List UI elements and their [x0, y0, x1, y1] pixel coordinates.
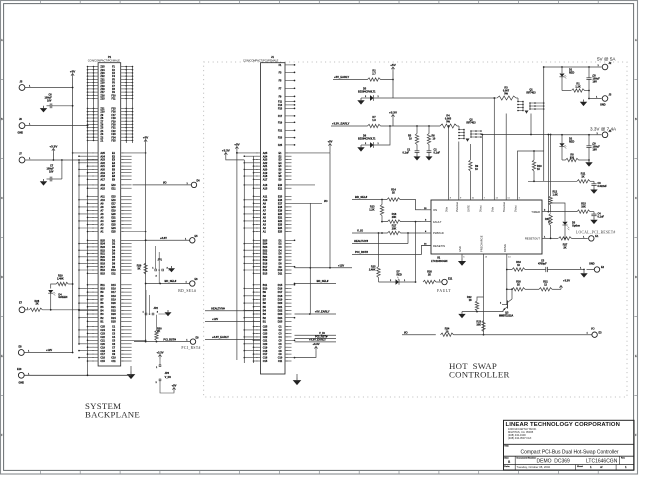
svg-text:V_I/O: V_I/O — [165, 376, 171, 379]
svg-text:E25: E25 — [111, 231, 116, 234]
wire PRECHARGE vertical — [483, 254, 485, 335]
wire R12 top feed — [550, 135, 552, 197]
svg-text:+3.3V: +3.3V — [222, 148, 230, 152]
wire R19 to +5V bus — [68, 283, 72, 285]
svg-text:0.1uF: 0.1uF — [598, 215, 605, 218]
svg-text:D21: D21 — [111, 306, 116, 309]
title block divider 1 — [504, 443, 635, 445]
wire U1 3Vout pin up to 3.3V output — [481, 135, 483, 201]
ground symbol at C7 — [43, 179, 45, 181]
ground symbol at JP2 — [167, 310, 169, 312]
wire R17 to PWRGD pin — [401, 232, 422, 234]
svg-text:A: A — [635, 39, 637, 42]
svg-text:ON: ON — [433, 208, 437, 212]
svg-text:2K: 2K — [563, 247, 566, 250]
ground symbol below C3 — [593, 185, 595, 187]
title block outer box — [504, 420, 635, 470]
svg-text:CONTROLLER: CONTROLLER — [449, 370, 510, 380]
svg-text:D11: D11 — [278, 272, 283, 275]
wire Q2 drain to 3.3V output line — [481, 134, 551, 136]
svg-text:1K: 1K — [517, 284, 520, 287]
terminal E6 — [190, 281, 195, 286]
svg-text:LTC1646CGN: LTC1646CGN — [586, 459, 618, 465]
jumper JP3 vertical — [159, 359, 161, 365]
wire BD_SEL# stub right of J1 — [295, 283, 337, 285]
svg-text:BZX84C3V3LT1: BZX84C3V3LT1 — [358, 138, 376, 141]
power +3.3V for JP3 — [159, 355, 161, 360]
svg-text:BD_SEL#: BD_SEL# — [165, 279, 177, 283]
svg-text:3Vsense: 3Vsense — [455, 201, 459, 212]
svg-text:FAULT: FAULT — [437, 289, 451, 293]
P1 ground stem at box bottom — [130, 366, 132, 372]
svg-text:5Vout: 5Vout — [514, 205, 518, 212]
wire E10 to P1 ground — [24, 374, 131, 376]
svg-text:GND: GND — [458, 246, 462, 252]
ground symbol at D6 — [360, 145, 362, 147]
terminal E5 — [190, 238, 195, 243]
svg-text:A15: A15 — [100, 187, 105, 190]
wire third bus left of J1 — [253, 156, 255, 363]
svg-text:D11: D11 — [111, 272, 116, 275]
svg-text:B: B — [635, 118, 637, 121]
capacitor C1 0.1uF — [416, 145, 418, 151]
svg-text:JP2: JP2 — [154, 307, 159, 310]
svg-text:HEALTHY#: HEALTHY# — [354, 239, 368, 243]
svg-text:GND: GND — [600, 103, 606, 106]
capacitor C3 0.022uF — [593, 181, 595, 184]
svg-text:C: C — [635, 197, 637, 200]
svg-text:D22: D22 — [278, 310, 283, 313]
wire PCI_RST# row to E9 — [134, 341, 190, 343]
connector J1 CON/COMPACT/PCI/FEMALE box — [261, 63, 286, 374]
svg-text:D18: D18 — [278, 295, 283, 298]
svg-text:JP3: JP3 — [165, 372, 170, 375]
svg-text:D22: D22 — [111, 310, 116, 313]
wire U1 5Vin pin up to 5V rail — [493, 98, 495, 200]
svg-text:RESETOUT: RESETOUT — [525, 237, 540, 241]
svg-text:A: A — [1, 39, 3, 42]
svg-text:I/O: I/O — [404, 330, 408, 334]
svg-text:CON/COMPACT/PCI/FEMALE: CON/COMPACT/PCI/FEMALE — [243, 59, 279, 63]
wire DRIVE vertical — [506, 254, 508, 305]
power +5V arrow — [392, 67, 394, 72]
resistor R29 on +5V bus — [144, 263, 147, 274]
ground symbol at JP1 — [171, 266, 173, 268]
svg-text:5Vin: 5Vin — [490, 206, 494, 212]
P1 left Z-section bus wires — [87, 67, 89, 376]
wire RESETOUT line — [551, 237, 558, 239]
wire TIMER to R15 — [548, 211, 577, 213]
svg-text:+5V: +5V — [172, 383, 177, 387]
svg-text:D15: D15 — [278, 284, 283, 287]
svg-text:1K: 1K — [392, 192, 395, 195]
svg-text:1.6K: 1.6K — [553, 194, 558, 197]
svg-text:TIMER: TIMER — [531, 210, 540, 214]
svg-text:A15: A15 — [263, 187, 268, 190]
svg-text:0.1uF: 0.1uF — [434, 152, 441, 155]
svg-text:D: D — [1, 276, 3, 279]
ground symbol at D5 — [360, 98, 362, 100]
wire R7 to +3.3V node — [381, 125, 391, 127]
svg-text:4700pF: 4700pF — [538, 263, 547, 266]
P1 right Z-section bus wires — [125, 67, 127, 144]
svg-text:BD_SEL#: BD_SEL# — [355, 195, 368, 199]
svg-text:3K: 3K — [137, 268, 140, 271]
ground symbol below J1 — [296, 378, 298, 381]
wire Q1 drain to 5V output bus — [543, 67, 545, 181]
power +3.3V right of J1 to pin C9 row — [315, 346, 317, 351]
svg-text:+5V_EARLY: +5V_EARLY — [334, 75, 349, 79]
svg-text:D23: D23 — [111, 313, 116, 316]
svg-text:C15: C15 — [263, 360, 268, 363]
wire R16 to FAULT pin — [401, 221, 422, 223]
svg-text:D17: D17 — [278, 291, 283, 294]
svg-text:D21: D21 — [278, 306, 283, 309]
svg-text:A17: A17 — [263, 178, 268, 181]
wire Q1 gate down — [530, 114, 532, 135]
wire PCI_RST# up to RESETIN pin — [422, 246, 432, 255]
svg-text:0.022uF: 0.022uF — [598, 185, 608, 188]
svg-text:D: D — [635, 276, 637, 279]
wire 5V output to J2 — [544, 66, 602, 68]
wire R14 to ON pin — [400, 200, 421, 210]
svg-text:LTC1646CGN: LTC1646CGN — [431, 259, 448, 263]
svg-text:F23: F23 — [278, 137, 283, 140]
wire +5V_EARLY stub right of J1 — [295, 313, 337, 315]
svg-text:GND: GND — [19, 381, 25, 384]
svg-text:D24: D24 — [111, 317, 116, 320]
svg-text:+3.3V: +3.3V — [49, 144, 57, 148]
svg-text:D15: D15 — [111, 284, 116, 287]
svg-text:+3.3V: +3.3V — [389, 110, 397, 114]
svg-text:GREEN: GREEN — [58, 296, 67, 299]
svg-text:V_IO: V_IO — [357, 229, 363, 233]
ground symbol at Q3 emitter — [461, 312, 463, 314]
terminal E3 — [592, 332, 597, 337]
svg-text:D16: D16 — [278, 288, 283, 291]
svg-text:IRF7413: IRF7413 — [466, 121, 476, 124]
wire E8 +12V to bus — [24, 352, 72, 354]
wire +12V stub right of J1 — [295, 267, 353, 269]
svg-text:+3.3V_EARLY: +3.3V_EARLY — [309, 338, 326, 342]
wire R2 to +5V node — [381, 79, 394, 81]
wire R10 bottom / R11 line — [528, 180, 577, 182]
svg-text:I/O: I/O — [163, 180, 166, 184]
wire +5V/+12V left bus — [72, 88, 74, 353]
svg-text:5Vsense: 5Vsense — [502, 201, 506, 212]
svg-text:(408) 434-0507 FAX: (408) 434-0507 FAX — [508, 436, 532, 440]
svg-text:PCI_RST#: PCI_RST# — [355, 250, 368, 254]
svg-text:D17: D17 — [111, 291, 116, 294]
svg-text:D16: D16 — [111, 288, 116, 291]
svg-text:I/O: I/O — [324, 199, 327, 203]
ground symbol below C2 — [428, 152, 430, 154]
wire +12V to J1 pin B1 — [205, 320, 261, 322]
wire +5V bus right of P1 — [145, 144, 147, 342]
svg-text:RESETIN: RESETIN — [433, 244, 445, 248]
svg-text:+3.3V: +3.3V — [563, 279, 570, 283]
wire vertical branch x=310 — [309, 203, 311, 314]
svg-text:2K: 2K — [36, 303, 39, 306]
svg-text:+12V: +12V — [212, 317, 218, 321]
ground symbol at E2 — [583, 270, 585, 272]
wire +3.3V_EARLY stub right of J1 — [295, 341, 337, 343]
svg-text:D20: D20 — [278, 302, 283, 305]
wire R24 to E3 — [454, 334, 592, 336]
terminal E11 — [442, 279, 447, 284]
svg-text:I/O: I/O — [591, 326, 595, 330]
svg-text:D19: D19 — [111, 299, 116, 302]
terminal E4 — [191, 182, 196, 187]
svg-text:Title: Title — [504, 445, 509, 448]
ground symbol below U1 GND pin — [461, 254, 463, 259]
svg-text:+5V_EARLY: +5V_EARLY — [315, 310, 330, 314]
svg-text:BD_SEL#: BD_SEL# — [178, 289, 196, 293]
svg-text:+12V: +12V — [46, 348, 52, 352]
svg-text:C: C — [1, 197, 3, 200]
power +5V symbol right of P1 — [145, 140, 147, 145]
terminal J3 GND — [602, 96, 608, 102]
wire TIMER vertical — [547, 135, 549, 212]
svg-text:10K: 10K — [476, 324, 481, 327]
svg-text:+3.3V: +3.3V — [160, 236, 167, 240]
svg-text:E11: E11 — [448, 278, 453, 281]
wire +5V bus left of J1 — [236, 153, 238, 360]
svg-text:B15: B15 — [263, 272, 268, 275]
ground symbol below P1 — [130, 372, 132, 375]
svg-text:RED: RED — [569, 72, 574, 75]
svg-text:F25: F25 — [278, 144, 283, 147]
svg-text:PCI_RST#: PCI_RST# — [181, 346, 200, 350]
svg-text:E10: E10 — [17, 368, 22, 371]
svg-text:+12V: +12V — [338, 264, 344, 268]
svg-text:0.1uF: 0.1uF — [403, 152, 410, 155]
ground symbol below C8 — [583, 100, 585, 102]
svg-text:GATE: GATE — [466, 205, 470, 212]
svg-text:GND: GND — [18, 132, 24, 135]
dashed board outline (hot swap card) — [204, 62, 627, 397]
frame row ticks left/right — [1, 79, 4, 81]
wire R19 to LED D4 — [51, 284, 57, 289]
wire J1 box bottom to ground — [285, 373, 297, 375]
capacitor C2 0.1uF — [428, 145, 430, 151]
wire JP2 pin3 to ground — [159, 314, 169, 316]
svg-text:F11: F11 — [111, 98, 116, 101]
wire +5V node down to 5V rail — [392, 72, 394, 99]
svg-text:D23: D23 — [278, 313, 283, 316]
svg-text:1.2K: 1.2K — [575, 85, 580, 88]
svg-text:Tuesday, October 08, 2002: Tuesday, October 08, 2002 — [517, 465, 551, 469]
svg-text:F25: F25 — [111, 140, 116, 143]
svg-text:Z15: Z15 — [100, 98, 105, 101]
wire JP1 feeds from P1 bus — [155, 246, 157, 269]
svg-text:IRF7413: IRF7413 — [526, 92, 536, 95]
svg-text:3Vout: 3Vout — [478, 205, 482, 212]
svg-text:CON/COMPACT/PCI/MALE: CON/COMPACT/PCI/MALE — [88, 59, 120, 63]
svg-text:PRECHARGE: PRECHARGE — [480, 235, 484, 252]
svg-text:+5V: +5V — [328, 139, 333, 143]
frame column ticks top/bottom — [39, 1, 41, 4]
wire +3.3V bus left of J1 — [243, 160, 245, 363]
wire JP2 feeds — [145, 290, 147, 313]
wire vertical x=330 down — [329, 153, 331, 268]
svg-text:D18: D18 — [111, 295, 116, 298]
svg-text:2.49K: 2.49K — [369, 269, 376, 272]
svg-text:3Vin: 3Vin — [445, 206, 449, 212]
svg-text:+3.3V_EARLY: +3.3V_EARLY — [332, 121, 350, 125]
wire 3.3V output to J4 — [551, 134, 602, 136]
wire JP1 pin3 to ground — [168, 270, 171, 272]
svg-text:16V: 16V — [47, 99, 52, 102]
wire 3.3V rail to R4 — [390, 125, 440, 127]
svg-text:C11: C11 — [278, 360, 283, 363]
power +5V at JP3 — [173, 388, 175, 393]
svg-text:16V: 16V — [593, 81, 598, 84]
ground symbol at C6 — [43, 106, 45, 108]
svg-text:FAULT: FAULT — [433, 220, 442, 224]
svg-text:E22: E22 — [111, 220, 116, 223]
power +5V above J5 wire — [72, 74, 74, 79]
svg-text:16V: 16V — [593, 149, 598, 152]
J1 ground stem at box bottom — [296, 374, 298, 378]
svg-text:B: B — [1, 118, 3, 121]
svg-text:Date:: Date: — [504, 465, 510, 468]
wire U1 3Vin pin up to 3.3V rail — [448, 126, 450, 200]
svg-text:PCI_RST#: PCI_RST# — [163, 337, 176, 341]
wire J5 to +5V bus — [25, 87, 73, 89]
terminal J4 — [602, 132, 608, 138]
svg-text:Compact PCI-Bus Dual Hot-Swap: Compact PCI-Bus Dual Hot-Swap Controller — [520, 449, 618, 455]
svg-text:5V @ 5A: 5V @ 5A — [597, 56, 616, 61]
terminal J2 — [602, 64, 608, 70]
power +5V above (row E1 feed) — [329, 144, 331, 149]
power +3.3V above J7 wire — [52, 149, 54, 154]
svg-text:2.7: 2.7 — [372, 73, 376, 76]
svg-text:PWRGD: PWRGD — [433, 231, 444, 235]
svg-text:BZX84C5V6LT1: BZX84C5V6LT1 — [358, 91, 376, 94]
power +3.3V arrow — [392, 115, 394, 120]
svg-text:B15: B15 — [100, 272, 105, 275]
svg-text:1K: 1K — [581, 175, 584, 178]
svg-text:Document Number: Document Number — [517, 457, 537, 460]
svg-text:E11: E11 — [278, 187, 283, 190]
svg-text:GND: GND — [589, 262, 595, 265]
title block divider 2 — [504, 455, 635, 457]
wire BD_SEL# row to E6 — [146, 283, 190, 285]
connector P1 CON/COMPACT/PCI/MALE box — [98, 63, 121, 366]
wire U1 GATE pin up through R9 — [469, 144, 471, 160]
svg-text:MMBT2222A: MMBT2222A — [499, 315, 513, 318]
svg-text:E17: E17 — [278, 202, 283, 205]
wire HEALTHY# to J1 pin B4 — [205, 310, 261, 312]
wire Q3 emitter to ground — [462, 311, 503, 312]
svg-text:+5V: +5V — [143, 135, 148, 139]
svg-text:20K: 20K — [392, 216, 397, 219]
svg-text:C11: C11 — [111, 360, 116, 363]
power +5V feeding J1 pin A25 — [236, 147, 238, 152]
svg-text:D19: D19 — [278, 299, 283, 302]
wire J7 to +3.3V net and pin A23 — [25, 159, 98, 161]
svg-text:20K: 20K — [392, 228, 397, 231]
svg-text:JP1: JP1 — [158, 259, 163, 262]
op-amp U1 LTC1646CGN box — [431, 200, 542, 254]
svg-text:B11: B11 — [100, 284, 105, 287]
wire JP3 pin2 to +5V — [160, 381, 174, 393]
svg-text:2.49K: 2.49K — [57, 277, 64, 280]
svg-text:BD_SEL#: BD_SEL# — [317, 279, 329, 283]
wire +3.3V_EARLY to J1 pin C22 — [205, 338, 261, 340]
svg-text:DRIVE: DRIVE — [503, 244, 507, 252]
svg-text:RED: RED — [569, 141, 574, 144]
svg-text:D20: D20 — [111, 302, 116, 305]
wire 5V rail to R3 — [393, 97, 497, 99]
svg-text:1.2K: 1.2K — [369, 209, 374, 212]
terminal E1 — [589, 236, 594, 241]
svg-text:16V: 16V — [49, 170, 54, 173]
svg-text:B11: B11 — [263, 284, 268, 287]
svg-text:B10: B10 — [100, 288, 105, 291]
svg-text:B10: B10 — [263, 288, 268, 291]
power +3.3V feeding J1 pin A23 — [225, 153, 227, 158]
svg-text:+3.3V: +3.3V — [156, 350, 163, 354]
ground symbol below C4 — [593, 216, 595, 218]
svg-text:D24: D24 — [278, 317, 283, 320]
wire E5 +3.3V row — [146, 239, 190, 241]
wire V_IO stub right of J1 — [295, 334, 337, 336]
svg-text:D25: D25 — [111, 320, 116, 323]
svg-text:F15: F15 — [278, 108, 283, 111]
svg-text:10K: 10K — [581, 205, 586, 208]
terminal E9 — [190, 339, 195, 344]
svg-text:+3.3V_EARLY: +3.3V_EARLY — [212, 335, 229, 339]
LED D4 GREEN — [48, 290, 53, 293]
wire Q2 gate down — [475, 142, 477, 145]
svg-text:BACKPLANE: BACKPLANE — [85, 410, 140, 420]
svg-text:LOCAL_PCI_RESET#: LOCAL_PCI_RESET# — [576, 230, 616, 234]
ground symbol below C1 — [416, 152, 418, 154]
svg-text:E25: E25 — [278, 231, 283, 234]
svg-text:of: of — [600, 466, 603, 469]
svg-text:Sheet: Sheet — [577, 465, 583, 468]
svg-text:2K: 2K — [428, 273, 431, 276]
svg-text:E17: E17 — [111, 202, 116, 205]
wire U1 5Vsense pin up to Q1 — [505, 114, 507, 201]
wire +3.3V left bus — [78, 160, 80, 345]
title block divider 3 — [504, 464, 635, 466]
svg-text:3.3V @ 7.4A: 3.3V @ 7.4A — [590, 126, 617, 131]
wire U1 5Vout pin up and over — [518, 151, 544, 200]
svg-text:DEMO DC369: DEMO DC369 — [537, 459, 571, 465]
wire J6 to ground bus — [25, 125, 88, 127]
wire PCI_RST# stub right of J1 — [295, 338, 337, 340]
wire JP1 center pin down to BD_SEL# — [158, 271, 160, 284]
svg-text:1.6: 1.6 — [372, 119, 376, 122]
svg-text:+5V: +5V — [70, 69, 75, 73]
wire to J3 — [589, 98, 602, 100]
ground symbol below C9 — [588, 160, 590, 162]
wire E4 I/O row — [133, 184, 192, 186]
wire HEALTHY# up to PWRGD net — [407, 233, 409, 244]
svg-text:+3.3V: +3.3V — [312, 342, 319, 346]
svg-text:D25: D25 — [278, 320, 283, 323]
svg-text:E11: E11 — [111, 187, 116, 190]
svg-text:A17: A17 — [100, 178, 105, 181]
svg-text:F19: F19 — [278, 121, 283, 124]
svg-text:+5V: +5V — [234, 142, 239, 146]
svg-text:E22: E22 — [278, 220, 283, 223]
wire FAULT net vertical — [415, 222, 417, 282]
capacitor C4 0.1uF — [593, 212, 595, 215]
